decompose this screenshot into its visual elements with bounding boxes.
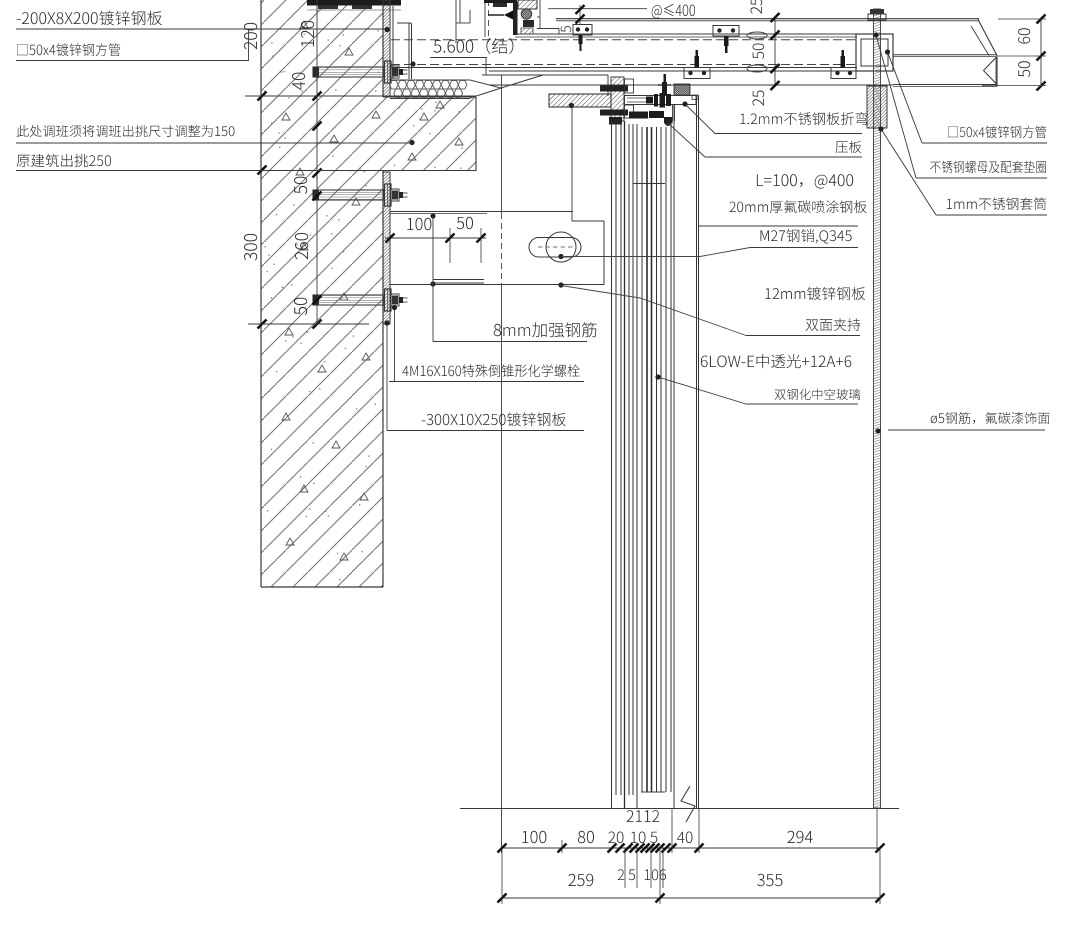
-300X10X250 galvanized plate (hatched)	[383, 172, 390, 324]
bolts through plate	[600, 86, 628, 92]
bolt plate A (on y34 line)	[573, 25, 592, 36]
stainless nut on top	[870, 9, 884, 14]
honeycomb insulation band	[390, 79, 470, 81]
fold corner	[692, 95, 698, 100]
hatched block top	[518, 0, 537, 9]
oval washers on beam lines	[747, 32, 767, 39]
dim text 40 (rotated)	[292, 73, 305, 90]
row1 ticks	[498, 844, 507, 853]
clamp channel arm	[625, 96, 697, 105]
label 50x4 square tube	[17, 43, 120, 56]
slotted hole	[529, 238, 581, 258]
left dim line on wall edge x=262	[258, 92, 267, 101]
20mm steel plate (hatched)	[549, 94, 611, 107]
row1 extensions	[561, 840, 563, 853]
row2 extensions	[501, 848, 503, 904]
small hatch block	[521, 28, 533, 34]
wall top transverse line y=96	[245, 95, 476, 97]
bottom line y85	[489, 84, 893, 86]
upper solid pair	[515, 33, 857, 35]
note text line1	[17, 125, 235, 137]
label phi5 rebar	[931, 412, 1050, 424]
bracket inner lines	[433, 279, 484, 281]
dim 5 extension line	[548, 8, 647, 10]
label 50x4 tube right	[948, 126, 1046, 138]
label M27 pin	[761, 229, 852, 244]
T-bolt up	[662, 82, 667, 95]
bolt plate B	[713, 26, 739, 37]
leader dot on line	[410, 61, 415, 66]
knurled nut	[521, 9, 531, 19]
label 12mm plate	[765, 287, 865, 301]
anchor bolt 3	[313, 295, 384, 305]
center vertical line x501	[501, 75, 503, 213]
existing roof profile (dark bar at wall top)	[307, 0, 401, 6]
12mm vertical plate (hatched)	[611, 77, 624, 121]
small dim separator verticals	[624, 848, 626, 888]
bottom dim row2 line	[502, 897, 880, 899]
leader vertical x433	[432, 216, 434, 342]
label -200X8X200 plate	[17, 11, 162, 26]
label stainless nut washer	[930, 161, 1046, 173]
label 1mm sleeve	[947, 197, 1046, 210]
anchor bolt 1 (chemical anchor)	[313, 67, 384, 77]
label 4M16X160 anchor	[402, 364, 579, 377]
right dim chain	[774, 18, 776, 86]
dim text 50b (rotated)	[294, 298, 307, 315]
bolt plate C (pin up)	[684, 68, 710, 79]
concrete wall (existing structure)	[261, 0, 476, 587]
glazing clamp verticals	[672, 105, 674, 122]
M27 pin circle	[546, 232, 576, 262]
label @<=400	[652, 4, 695, 19]
leader vertical from 20mm plate	[571, 106, 573, 222]
dim text 50 (rotated)	[294, 177, 307, 194]
lower solid line b	[489, 70, 857, 72]
label 1.2mm stainless bent	[740, 112, 867, 125]
concrete aggregate triangles	[300, 21, 308, 28]
stainless sleeve section	[867, 86, 887, 128]
angle cleats	[625, 79, 634, 93]
anchor bolt 2	[313, 190, 384, 200]
label glass	[701, 354, 851, 368]
row2 texts	[569, 874, 594, 886]
glass unit bottom line	[633, 183, 665, 185]
mullion and glass vertical lines	[611, 121, 613, 808]
note text line2	[17, 154, 111, 167]
label L=100 @400	[757, 174, 853, 189]
top edge line y75	[482, 74, 608, 76]
insulation end arrow	[470, 80, 501, 98]
dim text 300 (rotated)	[244, 234, 257, 261]
label 8mm rebar	[494, 322, 597, 337]
lower dashed line	[391, 64, 857, 66]
step lines	[537, 16, 540, 18]
vertical under 5.600	[485, 58, 487, 76]
steel beam right end	[978, 20, 997, 56]
row1 texts	[522, 831, 546, 843]
transverse line y=324	[248, 323, 369, 325]
dark bits under nut	[523, 20, 534, 27]
clamp bolt washers	[646, 97, 653, 104]
concrete specks	[302, 91, 303, 92]
glass bottom edge	[641, 791, 665, 793]
break symbol	[681, 786, 695, 822]
bracket arm outline	[390, 211, 573, 213]
label -300X10X250 plate	[422, 413, 566, 427]
solid axis line top	[484, 0, 486, 37]
top connection bracket (dark)	[484, 0, 517, 3]
ground line	[460, 808, 899, 810]
threaded rod phi5	[874, 9, 881, 808]
mid dim 100/50	[385, 237, 486, 239]
pressure plate dark band	[629, 112, 648, 119]
profile lines right of wall top	[392, 6, 394, 79]
leader dots on bracket	[558, 254, 563, 259]
lower solid line a	[391, 67, 857, 69]
dim text 200 (rotated)	[244, 23, 257, 49]
label 20mm plate	[730, 200, 867, 213]
beam top chord lines	[556, 18, 979, 20]
dim text 260 (rotated)	[295, 233, 308, 259]
dim 5 small	[579, 5, 581, 24]
dim text 120 (rotated)	[301, 21, 314, 47]
inner dim line x=317	[316, 0, 318, 324]
label press plate	[836, 141, 862, 153]
bottom dim row1 line	[502, 847, 880, 849]
dashed axis top	[488, 0, 490, 42]
far right dim 60/50	[1040, 19, 1042, 86]
thin profile lines top-left	[455, 0, 457, 43]
bolt plate D (pin up)	[831, 68, 856, 79]
knurled nut on clamp	[674, 84, 690, 95]
label 5.600	[434, 38, 514, 54]
hatched steel plate upper (wall right face)	[383, 0, 390, 96]
level dashed line 5.600	[391, 39, 857, 41]
50x50 square tube section	[856, 34, 893, 71]
